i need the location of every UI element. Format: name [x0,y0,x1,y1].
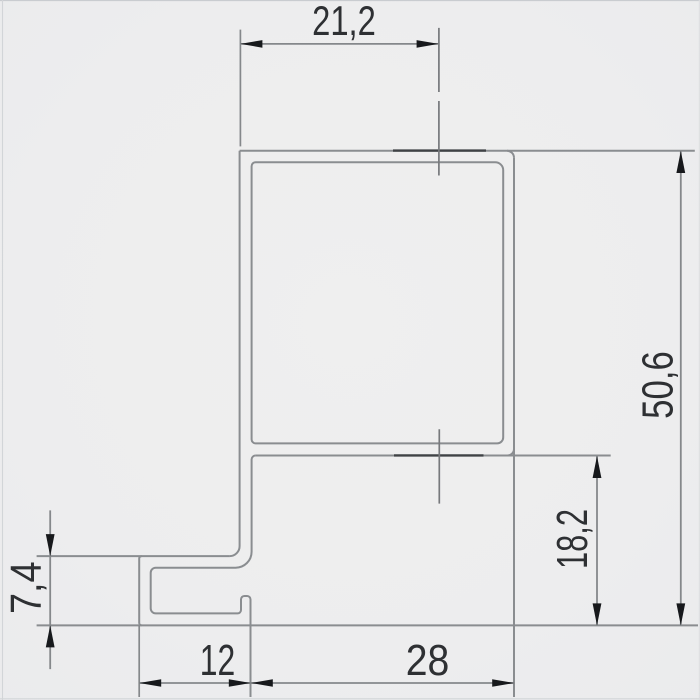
image frame edge top [0,0,700,2]
lower inner contour: chamber left wall, step inner, foot inner, hook; hook right edge extends to 12/28 dimension [151,456,256,698]
image frame edge left [2,0,4,700]
dimension 28: left arrowhead [251,679,273,687]
step top edge + extension left to 7,4 dimension [37,555,230,557]
dimension 7,4: dimension line (arrows outside) [49,510,51,669]
dimension 21,2: left arrowhead [240,40,262,48]
dimension 7,4: upper arrowhead (pointing down) [46,534,55,556]
svg-text:28: 28 [406,635,450,685]
svg-text:12: 12 [200,636,235,685]
dimension 12+28: shared dimension line [139,682,514,684]
profile top edge + extension line to 50,6 dimension [240,150,695,152]
dimension 18,2: top arrowhead [593,456,602,478]
dimension 21,2: dimension line [240,43,438,45]
dimension 21,2: right arrowhead [417,40,439,48]
svg-text:7,4: 7,4 [1,561,50,614]
profile bottom edge + extensions left (7,4) and right (50,6) [37,624,698,626]
dimension 50,6: bottom arrowhead [676,603,685,625]
dimension 12: right arrowhead [229,679,251,687]
center mark dash on top edge [393,149,486,151]
dimension 18,2: bottom arrowhead [593,603,602,625]
profile outer right edge + extension down to 28 dimension [513,158,515,697]
dimension 12: left arrowhead [139,679,161,687]
dimension 7,4: lower arrowhead (pointing up) [46,625,55,647]
dimension 18,2: dimension line [596,456,598,625]
dimension 21,2: extension line left [239,30,241,147]
dimension 28: right arrowhead [492,679,514,687]
fillet joining chamber top edge to outer right edge [508,449,515,456]
svg-text:50,6: 50,6 [634,351,683,419]
image frame edge right [698,0,700,700]
centerline at node x=439 (bottom) [438,429,440,503]
center mark dash on chamber top edge [394,454,484,456]
dimension 50,6: top arrowhead [676,151,685,173]
inner cavity of main box (rounded rect) [252,162,504,443]
profile outer left wall, step corner [230,151,240,556]
image frame edge bottom [0,698,700,700]
centerline at node x=439 (top) [438,28,440,176]
dimension 12: extension line left [138,625,140,697]
profile outer top-right corner [507,151,514,158]
lower chamber top edge + extension right to 18,2 dimension [256,455,611,457]
foot outer left edge [139,556,142,625]
dimension 50,6: dimension line [680,151,682,625]
svg-text:18,2: 18,2 [549,509,598,569]
svg-text:21,2: 21,2 [312,0,376,44]
